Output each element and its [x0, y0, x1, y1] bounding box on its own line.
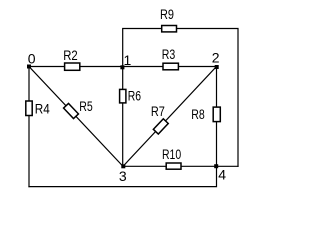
svg-text:R2: R2 [63, 47, 78, 63]
svg-text:R8: R8 [191, 106, 205, 122]
svg-text:R3: R3 [162, 46, 176, 62]
svg-text:2: 2 [212, 50, 220, 66]
node 3 junction dot [121, 164, 125, 168]
resistor R7 [153, 119, 168, 134]
wire bottom [29, 166, 217, 186]
wire node3 to node4 row [123, 165, 238, 167]
svg-text:R10: R10 [162, 146, 181, 162]
resistor R10 [166, 163, 181, 169]
svg-text:1: 1 [124, 52, 132, 68]
svg-text:R4: R4 [35, 100, 50, 116]
svg-text:4: 4 [218, 167, 226, 183]
node 2 junction dot [215, 65, 219, 69]
wire mid vertical node1 to node3 [122, 67, 124, 167]
resistor R3 [163, 63, 178, 70]
node 1 junction dot [120, 65, 124, 69]
node 4 junction dot [214, 164, 218, 168]
svg-text:R5: R5 [79, 98, 93, 114]
svg-text:0: 0 [28, 51, 36, 67]
resistor R2 [65, 63, 80, 70]
svg-text:3: 3 [119, 168, 127, 184]
wire right vertical node2 to node4 [216, 67, 218, 167]
resistor R8 [213, 107, 220, 122]
resistor R9 [162, 26, 177, 32]
node 0 junction dot [27, 65, 31, 69]
wire diagonal node2 to node3 [123, 67, 217, 167]
svg-text:R7: R7 [151, 103, 165, 119]
wire top node0 to node2 [29, 66, 217, 68]
wire R9 loop node1 up right down to node4 row [123, 29, 238, 167]
resistor R5 [64, 103, 79, 118]
svg-text:R6: R6 [128, 88, 141, 104]
wire diagonal node0 to node3 [29, 67, 123, 167]
svg-text:R9: R9 [160, 6, 174, 22]
resistor R4 [26, 101, 32, 116]
resistor R6 [120, 89, 126, 103]
wire left vertical node0 down [28, 67, 30, 187]
